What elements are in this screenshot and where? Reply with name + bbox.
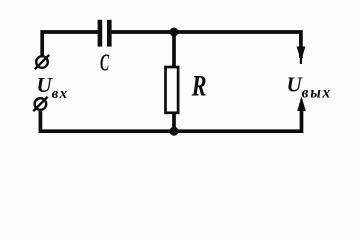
svg-text:C: C xyxy=(100,49,110,76)
wire top rail left segment with corner down to input terminal xyxy=(42,32,98,56)
svg-text:R: R xyxy=(191,69,207,102)
capacitor C1 right plate xyxy=(107,20,112,47)
arrow up (output bottom) xyxy=(300,99,302,131)
node A top junction xyxy=(170,28,179,37)
wire top rail right segment with corner down to arrow xyxy=(111,32,301,58)
arrow down (output top) xyxy=(300,48,302,64)
wire resistor top lead xyxy=(172,32,176,68)
terminal input top (circle with slash) xyxy=(35,55,49,69)
terminal input bottom (circle with slash) xyxy=(33,97,47,111)
svg-text:Uвых: Uвых xyxy=(287,72,332,101)
wire resistor bottom lead xyxy=(172,113,176,132)
node B bottom junction xyxy=(170,127,179,136)
capacitor C1 left plate xyxy=(98,20,103,47)
resistor R1 body xyxy=(166,67,179,113)
wire bottom rail with left corner up to input terminal xyxy=(40,111,301,132)
